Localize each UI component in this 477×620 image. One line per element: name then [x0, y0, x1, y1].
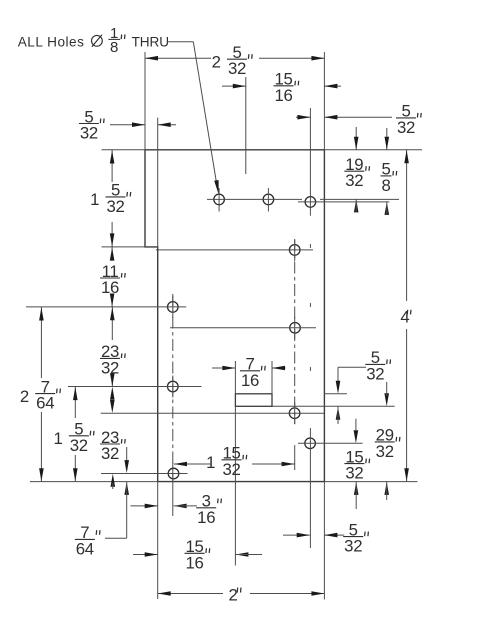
svg-text:32: 32 [345, 464, 363, 483]
extension line top edge to the right [324, 149, 422, 151]
svg-text:64: 64 [76, 539, 94, 558]
hole H9 [305, 438, 316, 449]
hole H3 [305, 197, 316, 208]
svg-text:32: 32 [80, 124, 98, 143]
centerline row hole 10 extended left [101, 473, 188, 475]
centerline row hole 6 [170, 327, 316, 329]
hole H4 [289, 245, 300, 256]
extension line step edge to the left [102, 246, 146, 248]
dimension 5/32 bottom right [283, 534, 310, 536]
extension line slot bottom to the right [273, 405, 395, 407]
centerline row hole 5 extended left [26, 306, 186, 308]
centerline column holes 4-6-8 (dash-dot) [294, 239, 296, 424]
dimension 1 15/32 bottom middle [174, 463, 212, 465]
svg-text:32: 32 [228, 59, 246, 78]
centerline row hole 3 extended right [298, 201, 389, 203]
centerline row holes 1-2 [207, 198, 302, 200]
svg-text:4: 4 [400, 308, 409, 327]
svg-text:16: 16 [241, 371, 259, 390]
dimension 23/32 left lower [111, 474, 116, 487]
arrow pair between hole row 7 and hole row 8 [110, 387, 115, 400]
dimension 5/32 top left notch width [110, 124, 145, 126]
dimension 2 5/32 top overall width [145, 57, 211, 59]
dimension 15/16 bottom [133, 554, 158, 556]
svg-text:32: 32 [101, 444, 119, 463]
svg-text:16: 16 [197, 508, 215, 527]
dimension 1 5/32 left lower [74, 387, 76, 419]
svg-text:1: 1 [53, 429, 62, 448]
hole H6 [290, 323, 301, 334]
dimension 29/32 right slot bottom to bottom edge [384, 393, 389, 406]
extension line bottom edge left and right [30, 481, 158, 483]
svg-text:64: 64 [36, 394, 54, 413]
svg-text:32: 32 [366, 364, 384, 383]
dimension 5/32 top right [296, 116, 310, 118]
extension line slot left edge above and below [234, 361, 236, 394]
vertical tick hole 1 [218, 188, 220, 212]
hole H7 [168, 381, 179, 392]
vertical tick hole 2 [267, 188, 269, 212]
centerline column holes 3-9 (dash-dot) [309, 108, 311, 216]
svg-text:16: 16 [274, 86, 292, 105]
leader line from note to hole H1 [167, 41, 193, 43]
svg-text:32: 32 [345, 171, 363, 190]
centerline row hole 4 [156, 249, 313, 251]
dimension 15/16 top [222, 85, 246, 87]
plate outline (2in x 4in plate with notched upper-left edge) [145, 150, 324, 482]
dimension 15/32 right hole row 9 to bottom edge [355, 419, 357, 430]
dimension 5/8 right top edge to hole row 3 [386, 128, 388, 150]
centerline row hole 7 extended left [68, 386, 202, 388]
centerline row hole 9 extended right [298, 442, 363, 444]
hole H8 [289, 408, 300, 419]
dimension 7/64 hole row 10 to bottom edge [124, 482, 129, 495]
svg-text:2: 2 [20, 387, 29, 406]
svg-text:2: 2 [229, 585, 238, 604]
svg-text:1: 1 [90, 190, 99, 209]
hole H2 [263, 194, 274, 205]
svg-text:32: 32 [397, 118, 415, 137]
hole H5 [168, 302, 179, 313]
centerline column holes 5-7-10 (dash-dot) [172, 294, 174, 480]
centerline row hole 8 extended left [101, 412, 325, 414]
svg-text:ALL Holes: ALL Holes [18, 34, 85, 49]
dimension 5/32 slot height right [338, 366, 366, 368]
extension line hole column x=245.8 from top dim [245, 77, 247, 174]
svg-text:16: 16 [101, 278, 119, 297]
svg-text:32: 32 [344, 537, 362, 556]
dimension 1 5/32 left upper [111, 150, 113, 182]
hole H10 [168, 468, 179, 479]
svg-text:32: 32 [101, 358, 119, 377]
extension line slot right edge above [271, 361, 273, 394]
dimension 3/16 bottom [130, 505, 157, 507]
svg-text:THRU: THRU [132, 34, 169, 49]
extension line slot top to the right [324, 393, 347, 395]
svg-text:32: 32 [376, 442, 394, 461]
svg-text:16: 16 [185, 553, 203, 572]
svg-text:32: 32 [106, 197, 124, 216]
dimension 11/16 left [111, 247, 113, 260]
dimension 4 inch overall height right [406, 150, 408, 301]
extension line top edge to the left [102, 149, 146, 151]
dimension 7/16 slot width [212, 367, 235, 369]
dimension 2 inch overall width bottom [158, 593, 223, 595]
svg-text:1: 1 [206, 453, 215, 472]
hole H1 [214, 194, 225, 205]
extension line lower-left edge (above plate, through plate, below plate) [157, 118, 159, 247]
extension line right edge above and below plate [323, 52, 325, 150]
svg-text:32: 32 [222, 460, 240, 479]
svg-text:32: 32 [70, 436, 88, 455]
svg-text:8: 8 [381, 176, 390, 195]
extension row 1 right of plate [320, 198, 399, 200]
svg-text:2: 2 [212, 52, 221, 71]
dimension 23/32 left upper [111, 307, 113, 340]
dimension 19/32 right top edge to hole row 1 [355, 127, 357, 150]
extension line upper-left edge above plate [144, 52, 146, 150]
dimension 2 7/64 far left [40, 307, 42, 378]
rectangular slot [235, 394, 272, 407]
svg-text:8: 8 [110, 39, 118, 56]
